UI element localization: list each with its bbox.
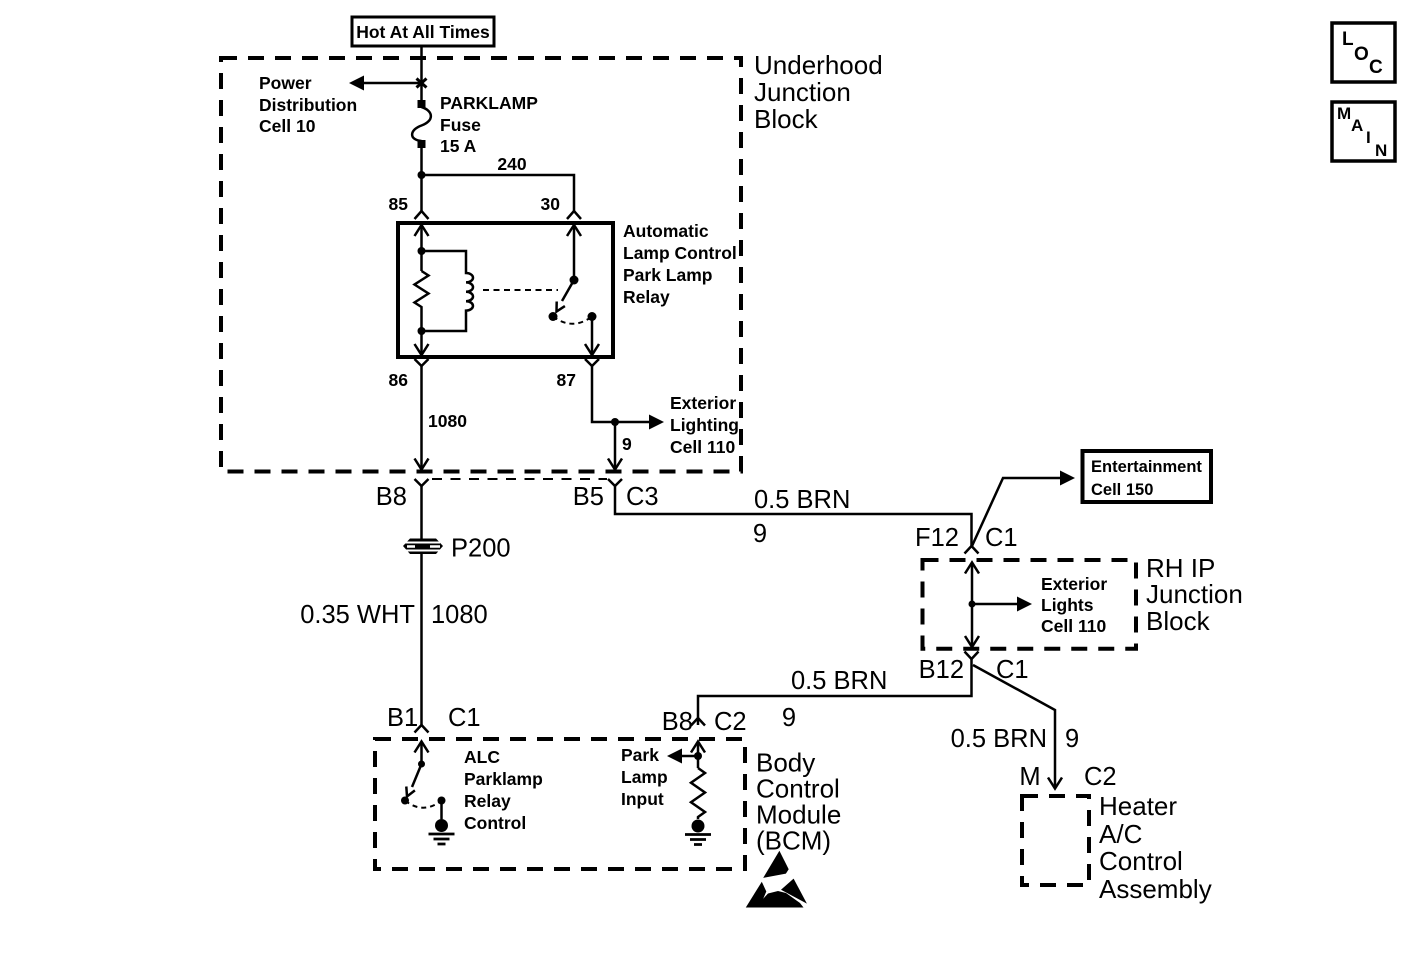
svg-text:9: 9 [753, 520, 767, 548]
svg-text:Power: Power [259, 73, 312, 93]
svg-text:Control: Control [1099, 846, 1183, 876]
svg-text:30: 30 [541, 194, 561, 214]
svg-text:9: 9 [782, 704, 796, 732]
svg-text:B8: B8 [376, 483, 407, 511]
svg-text:Automatic: Automatic [623, 221, 709, 241]
svg-text:1080: 1080 [428, 411, 467, 431]
svg-text:C1: C1 [448, 704, 481, 732]
svg-text:ALC: ALC [464, 747, 500, 767]
svg-text:Exterior: Exterior [670, 393, 736, 413]
svg-text:85: 85 [389, 194, 409, 214]
svg-text:F12: F12 [915, 524, 959, 552]
svg-text:Lamp: Lamp [621, 767, 668, 787]
svg-text:Junction: Junction [754, 77, 851, 107]
svg-text:C2: C2 [714, 708, 747, 736]
svg-text:L: L [1342, 29, 1354, 50]
svg-text:Entertainment: Entertainment [1091, 458, 1202, 476]
svg-text:Park Lamp: Park Lamp [623, 265, 712, 285]
svg-text:B1: B1 [387, 704, 418, 732]
svg-text:240: 240 [497, 154, 526, 174]
svg-text:B12: B12 [919, 656, 964, 684]
svg-text:0.5 BRN: 0.5 BRN [951, 725, 1047, 753]
svg-text:N: N [1375, 141, 1387, 160]
svg-text:0.5 BRN: 0.5 BRN [791, 667, 887, 695]
svg-text:Cell 110: Cell 110 [670, 437, 735, 457]
svg-text:B5: B5 [573, 483, 604, 511]
svg-text:(BCM): (BCM) [756, 826, 831, 856]
svg-text:Cell 150: Cell 150 [1091, 481, 1153, 499]
svg-text:I: I [1366, 128, 1371, 147]
svg-text:Cell 110: Cell 110 [1041, 616, 1106, 636]
svg-text:9: 9 [1065, 725, 1079, 753]
svg-text:Assembly: Assembly [1099, 874, 1212, 904]
svg-text:C3: C3 [626, 483, 659, 511]
svg-text:M: M [1337, 104, 1351, 123]
svg-text:Heater: Heater [1099, 791, 1177, 821]
svg-text:Underhood: Underhood [754, 50, 883, 80]
svg-text:15 A: 15 A [440, 136, 477, 156]
svg-text:Relay: Relay [623, 287, 670, 307]
svg-text:M: M [1019, 763, 1040, 791]
svg-text:Lamp Control: Lamp Control [623, 243, 737, 263]
svg-text:Block: Block [1146, 606, 1211, 636]
svg-text:PARKLAMP: PARKLAMP [440, 93, 538, 113]
svg-text:A: A [1351, 116, 1363, 135]
svg-text:C: C [1369, 57, 1383, 78]
svg-text:Distribution: Distribution [259, 95, 357, 115]
svg-text:Parklamp: Parklamp [464, 769, 543, 789]
svg-text:Park: Park [621, 745, 659, 765]
svg-text:Fuse: Fuse [440, 115, 481, 135]
svg-text:Exterior: Exterior [1041, 574, 1107, 594]
svg-text:Cell 10: Cell 10 [259, 116, 316, 136]
svg-text:Hot At All Times: Hot At All Times [356, 22, 490, 42]
svg-text:Lights: Lights [1041, 595, 1094, 615]
svg-text:86: 86 [389, 370, 409, 390]
svg-text:Block: Block [754, 104, 819, 134]
svg-text:Relay: Relay [464, 791, 511, 811]
svg-text:O: O [1354, 44, 1369, 65]
svg-text:1080: 1080 [431, 601, 488, 629]
svg-text:0.35 WHT: 0.35 WHT [300, 601, 415, 629]
svg-text:C2: C2 [1084, 763, 1117, 791]
svg-text:9: 9 [622, 434, 632, 454]
svg-text:P200: P200 [451, 535, 511, 563]
svg-text:A/C: A/C [1099, 819, 1142, 849]
svg-text:0.5 BRN: 0.5 BRN [754, 486, 850, 514]
svg-text:Junction: Junction [1146, 579, 1243, 609]
svg-text:Input: Input [621, 789, 664, 809]
svg-text:87: 87 [557, 370, 576, 390]
svg-text:C1: C1 [985, 524, 1018, 552]
svg-text:Control: Control [464, 813, 526, 833]
svg-text:Lighting: Lighting [670, 415, 739, 435]
svg-text:B8: B8 [662, 708, 693, 736]
